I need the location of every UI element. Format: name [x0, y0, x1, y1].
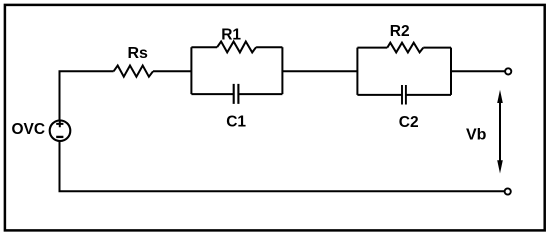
wire R1C1 to R2C2: [282, 70, 357, 72]
source plus sign: [56, 120, 63, 127]
terminal bottom: [505, 188, 511, 194]
R1C1 block left vertical: [190, 47, 192, 94]
capacitor C1: [234, 84, 239, 104]
resistor Rs: [114, 66, 153, 77]
wire bottom-right branch: [406, 94, 451, 96]
svg-text:R1: R1: [221, 26, 241, 43]
Vb arrowhead top: [497, 90, 503, 103]
svg-text:Vb: Vb: [466, 126, 487, 143]
svg-text:OVC: OVC: [12, 121, 46, 138]
wire R2C2 to output terminal: [451, 70, 505, 72]
wire bottom-left branch: [191, 93, 233, 95]
svg-text:Rs: Rs: [128, 45, 149, 62]
capacitor C2: [402, 85, 406, 105]
source minus sign: [56, 136, 63, 138]
Vb arrowhead bottom: [497, 160, 503, 173]
wire top-right branch: [423, 47, 451, 49]
svg-text:C2: C2: [399, 114, 419, 131]
Vb arrow shaft: [499, 100, 501, 163]
wire top-left branch: [191, 46, 217, 48]
R1C1 block right vertical: [281, 47, 283, 94]
R2C2 block left vertical: [356, 48, 358, 95]
wire source top to main node: [60, 71, 114, 120]
wire top-left branch: [357, 47, 387, 49]
voltage source U1 (OVC): [50, 120, 71, 141]
wire bottom-left branch: [357, 94, 402, 96]
resistor R1: [217, 42, 256, 53]
wire top-right branch: [256, 46, 282, 48]
wire source bottom to lower rail: [60, 141, 505, 191]
terminal top: [505, 68, 511, 74]
R2C2 block right vertical: [450, 48, 452, 95]
svg-text:C1: C1: [226, 113, 246, 130]
wire bottom-right branch: [238, 93, 282, 95]
resistor R2: [387, 43, 423, 53]
svg-text:R2: R2: [390, 23, 410, 40]
wire Rs to R1C1 block: [153, 70, 191, 72]
